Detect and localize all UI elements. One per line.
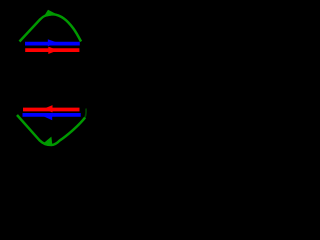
green arrowhead top (at apex, pointing right along arc) (43, 10, 57, 18)
blue arrowhead top (48, 39, 58, 46)
green arc bottom (cyclic path under the bottom, right to left) (17, 115, 85, 145)
blue arrowhead bottom (43, 113, 52, 121)
red arrow bottom (pointing left) (23, 108, 80, 112)
background (0, 0, 106, 159)
green arc top (cyclic path over the top, left to right) (20, 14, 82, 41)
red arrow top (pointing right) (25, 48, 79, 52)
red arrowhead bottom (43, 105, 52, 112)
red arrowhead top (48, 47, 58, 54)
green arc bottom right end curl (faint) (85, 109, 86, 118)
blue arrow bottom (pointing left) (23, 113, 81, 117)
green arrowhead bottom (at apex, pointing left along arc) (43, 137, 52, 146)
blue arrow top (pointing right) (25, 42, 80, 46)
